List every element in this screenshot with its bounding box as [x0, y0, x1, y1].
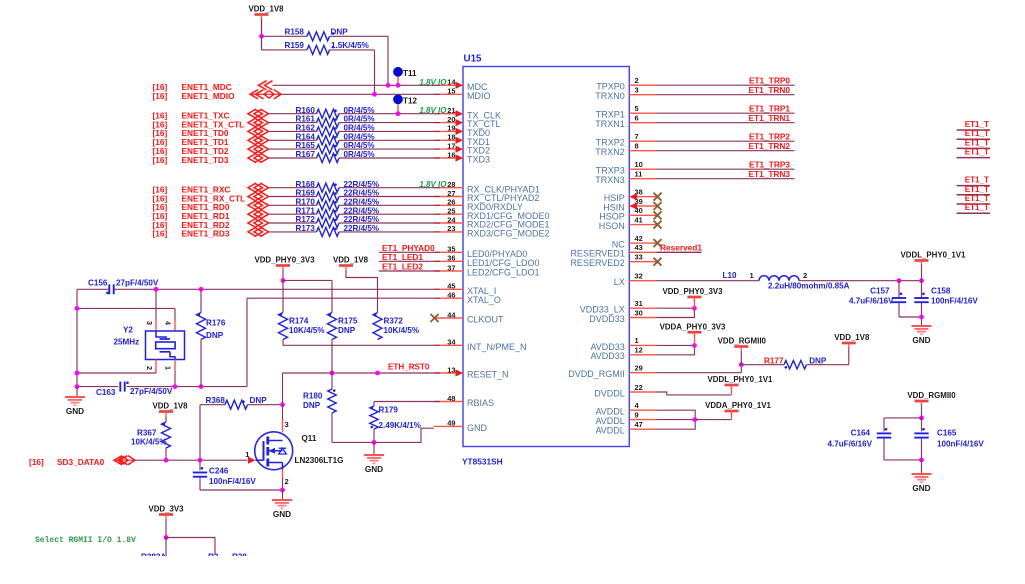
svg-text:4.7uF/6/16V: 4.7uF/6/16V: [827, 440, 872, 449]
svg-text:10: 10: [635, 160, 643, 169]
svg-text:R174: R174: [289, 317, 309, 326]
svg-text:9: 9: [635, 410, 639, 419]
svg-text:ET1_T: ET1_T: [965, 185, 989, 194]
svg-text:R160: R160: [296, 106, 316, 115]
svg-text:LED2/CFG_LDO1: LED2/CFG_LDO1: [467, 268, 540, 278]
svg-text:19: 19: [447, 124, 455, 133]
svg-text:ENET1_TD3: ENET1_TD3: [182, 155, 229, 165]
svg-text:LED1/CFG_LDO0: LED1/CFG_LDO0: [467, 258, 540, 268]
svg-text:VDD_1V8: VDD_1V8: [333, 256, 369, 265]
svg-text:TRXN2: TRXN2: [595, 147, 625, 157]
svg-text:3: 3: [635, 86, 639, 95]
svg-text:100nF/4/16V: 100nF/4/16V: [209, 477, 256, 486]
svg-text:27: 27: [447, 189, 455, 198]
svg-text:2: 2: [803, 271, 807, 280]
svg-text:R171: R171: [296, 206, 316, 215]
svg-text:DVDDL: DVDDL: [594, 388, 625, 398]
svg-text:VDD_RGMII0: VDD_RGMII0: [718, 337, 767, 346]
svg-text:2.2uH/80mohm/0.85A: 2.2uH/80mohm/0.85A: [768, 282, 850, 291]
svg-text:VDDL_PHY0_1V1: VDDL_PHY0_1V1: [708, 375, 774, 384]
svg-text:11: 11: [635, 170, 643, 179]
svg-text:0R/4/5%: 0R/4/5%: [344, 106, 375, 115]
svg-text:Q11: Q11: [302, 434, 317, 443]
svg-text:0R/4/5%: 0R/4/5%: [344, 124, 375, 133]
svg-text:AVDDL: AVDDL: [595, 426, 624, 436]
svg-text:ET1_TRP2: ET1_TRP2: [749, 132, 790, 142]
svg-text:R168: R168: [296, 180, 316, 189]
svg-text:C246: C246: [209, 467, 229, 476]
svg-text:22R/4/5%: 22R/4/5%: [344, 215, 380, 224]
svg-text:C163: C163: [96, 388, 116, 397]
svg-text:R175: R175: [338, 317, 358, 326]
svg-text:RESERVED2: RESERVED2: [570, 258, 624, 268]
svg-text:Y2: Y2: [123, 326, 133, 335]
svg-text:TRXP1: TRXP1: [596, 110, 625, 120]
svg-text:100nF/4/16V: 100nF/4/16V: [937, 440, 984, 449]
svg-text:16: 16: [447, 150, 455, 159]
svg-text:ET1_T: ET1_T: [965, 120, 989, 129]
svg-text:YT8531SH: YT8531SH: [462, 457, 503, 467]
svg-text:ET1_T: ET1_T: [965, 203, 989, 212]
svg-text:VDD_RGMII0: VDD_RGMII0: [907, 391, 956, 400]
svg-text:[16]: [16]: [153, 91, 168, 101]
svg-text:ET1_LED1: ET1_LED1: [382, 252, 423, 262]
svg-text:T12: T12: [403, 97, 417, 106]
svg-text:ET1_T: ET1_T: [965, 138, 989, 147]
svg-text:34: 34: [447, 338, 456, 347]
svg-text:32: 32: [635, 272, 643, 281]
svg-text:DVDD_RGMII: DVDD_RGMII: [568, 369, 625, 379]
svg-text:R179: R179: [379, 406, 399, 415]
svg-text:HSON: HSON: [599, 221, 625, 231]
svg-text:2: 2: [635, 76, 639, 85]
svg-text:C158: C158: [931, 287, 951, 296]
svg-text:4.7uF/6/16V: 4.7uF/6/16V: [849, 297, 894, 306]
svg-text:22: 22: [635, 383, 643, 392]
svg-text:VDDL_PHY0_1V1: VDDL_PHY0_1V1: [901, 251, 967, 260]
svg-text:GND: GND: [467, 423, 488, 433]
svg-text:VDDA_PHY0_3V3: VDDA_PHY0_3V3: [660, 322, 726, 331]
svg-text:DNP: DNP: [303, 401, 321, 410]
svg-text:26: 26: [447, 198, 455, 207]
svg-text:14: 14: [447, 78, 456, 87]
svg-text:VDD_1V8: VDD_1V8: [248, 5, 284, 14]
svg-text:C164: C164: [851, 429, 871, 438]
svg-text:0R/4/5%: 0R/4/5%: [344, 141, 375, 150]
svg-text:1.8V IO: 1.8V IO: [419, 106, 447, 115]
svg-text:GND: GND: [66, 407, 84, 416]
svg-text:27pF/4/50V: 27pF/4/50V: [130, 387, 173, 396]
svg-text:R165: R165: [296, 141, 316, 150]
svg-text:ET1_TRN1: ET1_TRN1: [749, 113, 791, 123]
svg-text:100nF/4/16V: 100nF/4/16V: [931, 297, 978, 306]
svg-text:C156: C156: [88, 278, 108, 287]
svg-text:R177: R177: [764, 357, 784, 366]
svg-text:5: 5: [635, 104, 639, 113]
svg-text:4: 4: [164, 321, 173, 325]
svg-text:CLKOUT: CLKOUT: [467, 315, 504, 325]
svg-text:45: 45: [447, 282, 455, 291]
svg-text:29: 29: [635, 364, 643, 373]
svg-text:1.8V IO: 1.8V IO: [419, 180, 447, 189]
svg-text:15: 15: [447, 87, 455, 96]
svg-text:R162: R162: [296, 124, 316, 133]
svg-text:VDD_3V3: VDD_3V3: [148, 505, 184, 514]
svg-text:VDDA_PHY0_1V1: VDDA_PHY0_1V1: [705, 401, 771, 410]
svg-text:1: 1: [635, 336, 639, 345]
svg-text:22R/4/5%: 22R/4/5%: [344, 206, 380, 215]
svg-text:ET1_TRP0: ET1_TRP0: [749, 76, 790, 86]
svg-text:RBIAS: RBIAS: [467, 398, 494, 408]
svg-text:VDD_1V8: VDD_1V8: [834, 333, 870, 342]
svg-text:R170: R170: [296, 197, 316, 206]
svg-text:XTAL_O: XTAL_O: [467, 295, 501, 305]
svg-text:TRXP2: TRXP2: [596, 138, 625, 148]
svg-text:LX: LX: [614, 277, 625, 287]
svg-text:27pF/4/50V: 27pF/4/50V: [116, 278, 159, 287]
svg-text:R180: R180: [303, 391, 323, 400]
svg-text:1.5K/4/5%: 1.5K/4/5%: [331, 41, 369, 50]
svg-text:18: 18: [447, 133, 455, 142]
svg-text:RXD3/CFG_MODE2: RXD3/CFG_MODE2: [467, 229, 550, 239]
svg-text:3: 3: [285, 420, 289, 429]
svg-text:MDIO: MDIO: [467, 91, 491, 101]
svg-text:ENET1_MDIO: ENET1_MDIO: [182, 91, 236, 101]
svg-text:2: 2: [285, 477, 289, 486]
svg-text:7: 7: [635, 132, 639, 141]
svg-text:GND: GND: [273, 510, 291, 519]
svg-text:TXD3: TXD3: [467, 155, 490, 165]
svg-text:LN2306LT1G: LN2306LT1G: [295, 456, 344, 465]
svg-text:ENET1_RD3: ENET1_RD3: [182, 229, 230, 239]
svg-text:R159: R159: [285, 41, 305, 50]
svg-text:22R/4/5%: 22R/4/5%: [344, 189, 380, 198]
svg-text:17: 17: [447, 141, 455, 150]
svg-text:R169: R169: [296, 189, 316, 198]
svg-text:TPXP0: TPXP0: [596, 82, 625, 92]
svg-text:ET1_TRN3: ET1_TRN3: [749, 169, 791, 179]
svg-text:37: 37: [447, 263, 455, 272]
svg-text:6: 6: [635, 114, 639, 123]
svg-text:ET1_TRP3: ET1_TRP3: [749, 160, 790, 170]
svg-text:22R/4/5%: 22R/4/5%: [344, 197, 380, 206]
svg-text:10K/4/5%: 10K/4/5%: [131, 438, 167, 447]
svg-text:42: 42: [635, 234, 643, 243]
svg-text:R167: R167: [296, 150, 316, 159]
svg-text:8: 8: [635, 142, 639, 151]
svg-text:36: 36: [447, 254, 455, 263]
svg-text:ET1_TRN2: ET1_TRN2: [749, 141, 791, 151]
svg-text:VDD_1V8: VDD_1V8: [152, 402, 188, 411]
svg-text:22R/4/5%: 22R/4/5%: [344, 224, 380, 233]
svg-text:0R/4/5%: 0R/4/5%: [344, 150, 375, 159]
svg-text:[16]: [16]: [153, 155, 168, 165]
svg-text:3: 3: [145, 321, 154, 325]
svg-text:30: 30: [635, 308, 643, 317]
svg-text:C157: C157: [870, 287, 890, 296]
svg-text:R172: R172: [296, 215, 316, 224]
svg-text:22R/4/5%: 22R/4/5%: [344, 180, 380, 189]
svg-text:[16]: [16]: [29, 457, 44, 467]
svg-text:R367: R367: [137, 429, 157, 438]
svg-text:RESET_N: RESET_N: [467, 370, 509, 380]
svg-text:44: 44: [447, 310, 456, 319]
svg-text:1.8V IO: 1.8V IO: [419, 78, 447, 87]
svg-text:2.49K/4/1%: 2.49K/4/1%: [379, 421, 421, 430]
svg-text:ET1_T: ET1_T: [965, 148, 989, 157]
svg-text:21: 21: [447, 106, 455, 115]
svg-text:48: 48: [447, 394, 455, 403]
svg-text:R368: R368: [206, 396, 226, 405]
svg-text:ET1_LED2: ET1_LED2: [382, 262, 423, 272]
svg-text:ET1_T: ET1_T: [965, 176, 989, 185]
svg-text:[16]: [16]: [153, 229, 168, 239]
svg-text:24: 24: [447, 215, 456, 224]
svg-text:TRXP3: TRXP3: [596, 166, 625, 176]
svg-text:DVDD33: DVDD33: [589, 314, 625, 324]
svg-text:T11: T11: [403, 69, 417, 78]
svg-text:R164: R164: [296, 132, 316, 141]
svg-text:46: 46: [447, 291, 455, 300]
svg-text:R372: R372: [384, 317, 404, 326]
svg-text:TRXN0: TRXN0: [595, 91, 625, 101]
svg-text:SD3_DATA0: SD3_DATA0: [57, 457, 105, 467]
svg-text:C165: C165: [937, 429, 957, 438]
svg-text:ET1_TRN0: ET1_TRN0: [749, 85, 791, 95]
svg-text:DNP: DNP: [206, 331, 224, 340]
svg-text:DNP: DNP: [331, 28, 349, 37]
svg-text:0R/4/5%: 0R/4/5%: [344, 115, 375, 124]
svg-text:2: 2: [145, 366, 154, 370]
svg-text:L10: L10: [723, 271, 737, 280]
svg-text:49: 49: [447, 419, 455, 428]
svg-text:R173: R173: [296, 224, 316, 233]
svg-text:35: 35: [447, 245, 455, 254]
svg-text:DNP: DNP: [338, 326, 356, 335]
svg-text:43: 43: [635, 243, 643, 252]
svg-text:INT_N/PME_N: INT_N/PME_N: [467, 342, 527, 352]
svg-text:VDD_PHY0_3V3: VDD_PHY0_3V3: [254, 256, 315, 265]
svg-text:47: 47: [635, 420, 643, 429]
svg-text:TRXN1: TRXN1: [595, 119, 625, 129]
svg-text:AVDDL: AVDDL: [595, 416, 624, 426]
svg-text:ET1_T: ET1_T: [965, 194, 989, 203]
svg-text:Select RGMII I/O 1.8V: Select RGMII I/O 1.8V: [35, 536, 136, 545]
svg-text:ET1_T: ET1_T: [965, 129, 989, 138]
svg-text:0R/4/5%: 0R/4/5%: [344, 132, 375, 141]
svg-text:28: 28: [447, 180, 455, 189]
svg-text:12: 12: [635, 346, 643, 355]
svg-text:GND: GND: [912, 336, 930, 345]
svg-text:R161: R161: [296, 115, 316, 124]
svg-text:25: 25: [447, 207, 455, 216]
svg-text:ET1_TRP1: ET1_TRP1: [749, 104, 790, 114]
svg-text:10K/4/5%: 10K/4/5%: [289, 326, 325, 335]
svg-text:25MHz: 25MHz: [114, 338, 140, 347]
svg-text:TRXN3: TRXN3: [595, 175, 625, 185]
svg-text:VDD_PHY0_3V3: VDD_PHY0_3V3: [662, 287, 723, 296]
svg-text:GND: GND: [912, 484, 930, 493]
svg-text:ETH_RST0: ETH_RST0: [388, 363, 430, 372]
svg-text:10K/4/5%: 10K/4/5%: [384, 326, 420, 335]
svg-text:41: 41: [635, 215, 643, 224]
svg-text:DNP: DNP: [250, 396, 268, 405]
svg-text:DNP: DNP: [809, 357, 827, 366]
svg-text:U15: U15: [464, 54, 483, 65]
svg-text:31: 31: [635, 299, 643, 308]
svg-text:R158: R158: [285, 28, 305, 37]
svg-text:1: 1: [164, 366, 173, 370]
svg-text:20: 20: [447, 115, 455, 124]
svg-text:23: 23: [447, 224, 455, 233]
svg-text:13: 13: [447, 365, 455, 374]
svg-text:Reserved1: Reserved1: [660, 243, 702, 253]
svg-text:AVDD33: AVDD33: [590, 351, 624, 361]
svg-text:33: 33: [635, 253, 643, 262]
svg-text:GND: GND: [365, 465, 383, 474]
svg-text:R176: R176: [206, 319, 226, 328]
